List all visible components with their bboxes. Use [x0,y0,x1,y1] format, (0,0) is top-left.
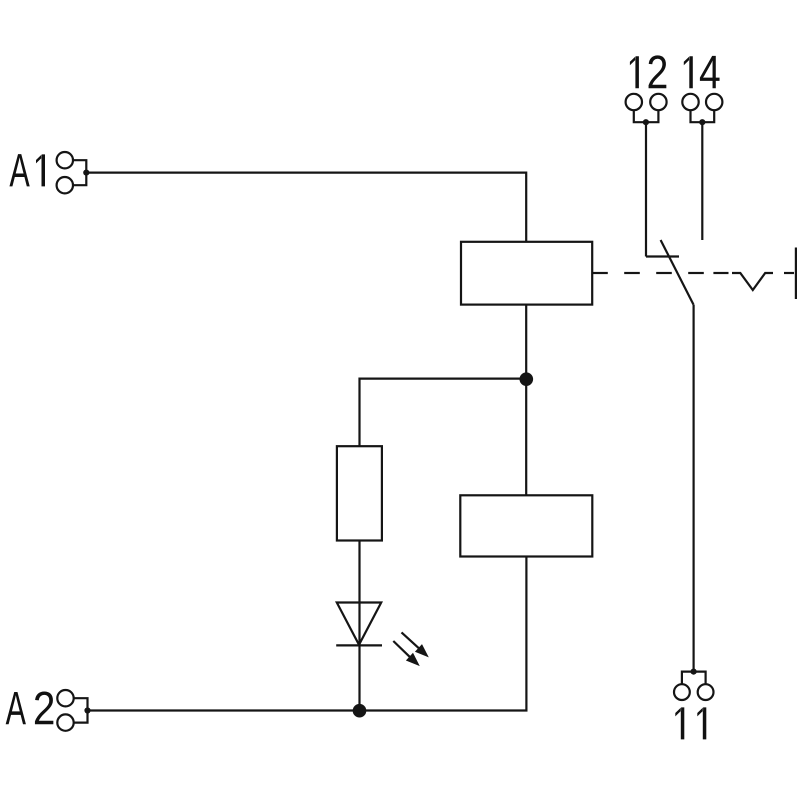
LED D1 triangle [337,603,381,645]
label 14 [684,56,720,88]
LED light arrow 2 [393,641,420,666]
LED light arrow 1 [402,632,429,657]
wire resistor to A2 rail (through LED) [358,541,360,711]
terminal 11 [674,669,713,700]
suppressor module rectangle [460,495,592,556]
label 11 [675,707,706,739]
terminal A1 [57,152,90,193]
resistor R1 [337,446,382,540]
switch moving contact [661,240,694,305]
actuator bar [795,248,797,300]
terminal 14 [682,94,722,125]
relay coil K1 [461,242,592,305]
terminal A2 [57,690,90,731]
wire contact to terminal 11 [692,305,694,672]
wire 12 to NC contact [645,122,647,256]
actuator dash to bar [784,272,794,274]
wire 14 NO fixed contact [701,122,703,240]
node junction (LED / A2 rail) [353,704,367,718]
wire node to resistor [360,379,527,447]
LED cathode bar [336,644,382,646]
label A1 [9,154,45,186]
label A2 [6,691,54,724]
terminal 12 [626,94,667,125]
wire coil bottom to node [525,305,527,496]
NC fixed contact [646,255,679,257]
actuator dashed link (coil to contact) [592,272,728,274]
node junction (coil / resistor branch) [520,372,534,386]
actuator V link [732,273,773,290]
wire A1 to coil [86,173,526,242]
label 12 [630,55,666,88]
wire module bottom / A2 rail [88,557,527,711]
